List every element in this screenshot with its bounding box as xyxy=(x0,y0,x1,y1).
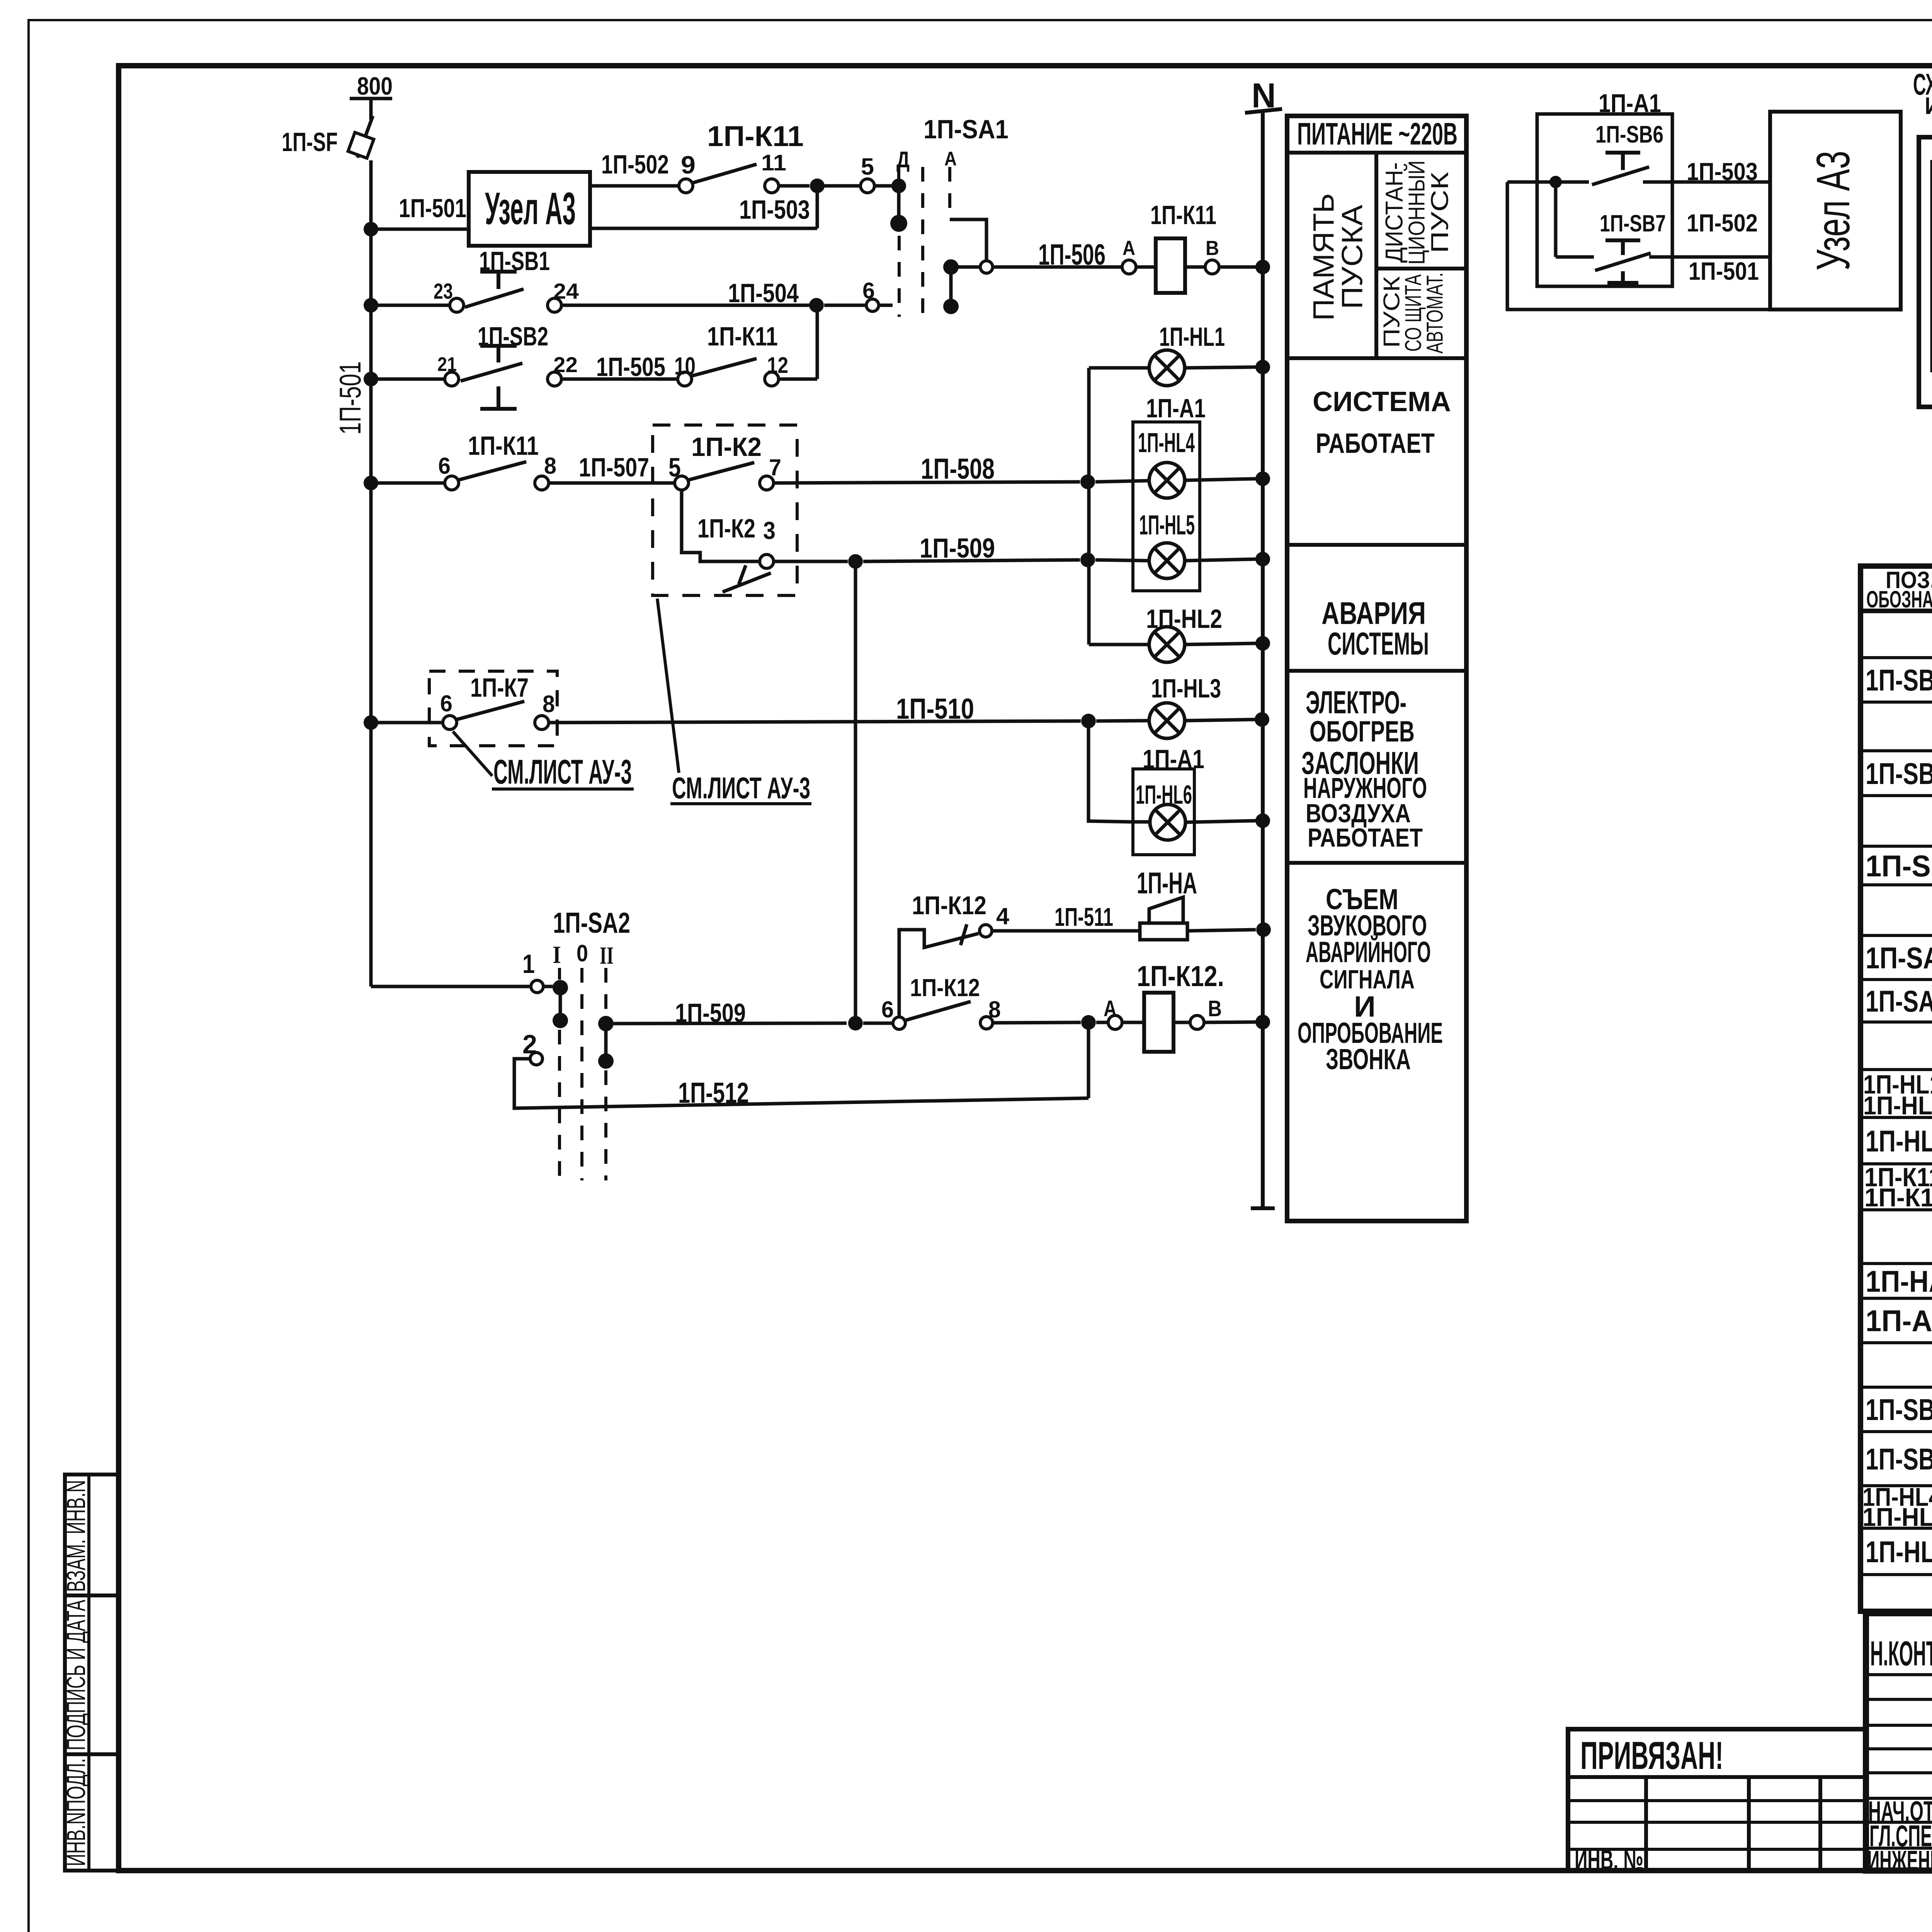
SA2 II-column contact dots xyxy=(604,968,607,1016)
svg-text:ПОДПИСЬ И ДАТА: ПОДПИСЬ И ДАТА xyxy=(61,1600,91,1750)
svg-text:А: А xyxy=(1122,237,1135,260)
svg-text:1П-SA1: 1П-SA1 xyxy=(923,114,1009,144)
svg-text:1П-503: 1П-503 xyxy=(1687,158,1758,185)
junction node xyxy=(810,179,825,193)
svg-text:ИНВ.NПОДЛ.: ИНВ.NПОДЛ. xyxy=(61,1758,91,1866)
svg-text:11: 11 xyxy=(761,150,786,175)
N bus end tick xyxy=(1251,1206,1275,1210)
svg-text:ПРИВЯЗАН!: ПРИВЯЗАН! xyxy=(1580,1734,1723,1777)
SA2 I-column contact dots xyxy=(558,968,561,983)
svg-text:9: 9 xyxy=(681,151,696,179)
svg-text:5: 5 xyxy=(668,452,681,482)
svg-text:1П-К11: 1П-К11 xyxy=(1150,200,1216,230)
pushbutton 1P-SB2 contacts 21-22 xyxy=(445,372,459,386)
svg-text:1П-509: 1П-509 xyxy=(675,998,746,1028)
svg-text:1П-К12.: 1П-К12. xyxy=(1137,960,1224,992)
svg-text:1П-501: 1П-501 xyxy=(399,194,466,223)
functional unit Uzel A3 (left) xyxy=(469,172,590,246)
svg-text:1П-А1: 1П-А1 xyxy=(1866,1304,1932,1338)
svg-text:Узел А3: Узел А3 xyxy=(1807,151,1859,270)
wire left bus 1P-501 xyxy=(369,99,373,120)
svg-text:8: 8 xyxy=(988,997,1001,1022)
svg-text:7: 7 xyxy=(769,454,781,480)
junction node rung2 right xyxy=(809,298,824,313)
svg-text:1П-К2: 1П-К2 xyxy=(691,432,762,462)
relay contact 1P-K7 dashed outline xyxy=(429,671,557,746)
svg-text:8: 8 xyxy=(543,691,555,718)
wire joining rung3 to rung2 node xyxy=(816,305,819,379)
see sheet AU-3 note (K7) xyxy=(453,731,492,776)
svg-text:1П-SF: 1П-SF xyxy=(282,127,338,157)
SA2 0-column dashed xyxy=(580,968,583,1180)
svg-text:1П-509: 1П-509 xyxy=(920,533,995,564)
wire rung4 xyxy=(371,481,444,485)
svg-text:СМ.ЛИСТ АУ-3: СМ.ЛИСТ АУ-3 xyxy=(493,752,632,791)
svg-text:1П-SB7: 1П-SB7 xyxy=(1600,210,1666,236)
wire rung3 xyxy=(371,378,444,381)
svg-text:1П-511: 1П-511 xyxy=(1054,903,1113,932)
contact 1P-K12 6-8 xyxy=(893,1017,905,1029)
circuit breaker 1P-SF xyxy=(357,116,373,158)
svg-text:1П-HL3: 1П-HL3 xyxy=(1151,673,1221,703)
svg-text:1П-505: 1П-505 xyxy=(596,352,665,382)
svg-text:1П-К12: 1П-К12 xyxy=(912,891,986,920)
svg-text:1П-К11: 1П-К11 xyxy=(468,431,539,461)
contact 6 to SA1 xyxy=(866,299,879,311)
svg-text:1П-К2: 1П-К2 xyxy=(697,514,755,543)
svg-text:24: 24 xyxy=(553,279,579,304)
svg-text:1П-НА: 1П-НА xyxy=(1137,866,1197,900)
svg-text:1П-SB2: 1П-SB2 xyxy=(1866,757,1932,791)
svg-text:1П-HL4: 1П-HL4 xyxy=(1138,428,1195,458)
svg-text:В: В xyxy=(1206,237,1219,260)
contact 1P-K11 9-11 xyxy=(679,179,693,193)
svg-text:1: 1 xyxy=(522,949,535,979)
svg-text:А: А xyxy=(1104,996,1117,1021)
svg-text:1П-512: 1П-512 xyxy=(678,1077,749,1109)
svg-text:ПАМЯТЬ: ПАМЯТЬ xyxy=(1307,193,1340,321)
svg-text:1П-HL3: 1П-HL3 xyxy=(1863,1091,1932,1120)
relay contact block 1P-K2 dashed outline xyxy=(653,425,797,595)
wire rung2 xyxy=(371,304,450,307)
pushbutton 1P-SB1 contacts 23-24 xyxy=(450,298,464,312)
svg-text:ИНВ. №: ИНВ. № xyxy=(1575,1845,1643,1876)
functional unit Uzel A3 (right) xyxy=(1770,112,1901,310)
contact 1P-K11 6-8 xyxy=(445,476,459,490)
SA1 contact dots on A column xyxy=(943,259,959,275)
svg-text:Н.КОНТР.: Н.КОНТР. xyxy=(1870,1634,1932,1673)
svg-text:800: 800 xyxy=(357,72,393,100)
svg-text:1П-504: 1П-504 xyxy=(728,278,799,308)
junction 1P-512 riser xyxy=(1081,1015,1096,1030)
riser contact6 up to K12-4 contact xyxy=(899,930,978,1017)
svg-text:1П-506: 1П-506 xyxy=(1038,238,1105,271)
svg-text:ОБОГРЕВ: ОБОГРЕВ xyxy=(1310,715,1415,748)
relay coil 1P-K11 xyxy=(1122,260,1136,274)
svg-text:А: А xyxy=(944,148,957,170)
svg-text:1П-SB7: 1П-SB7 xyxy=(1866,1442,1932,1476)
svg-text:СИСТЕМЫ: СИСТЕМЫ xyxy=(1328,626,1429,662)
svg-text:В: В xyxy=(1208,996,1222,1021)
wire 1P-509 rung5 xyxy=(774,560,848,563)
svg-text:8: 8 xyxy=(544,453,556,479)
svg-text:1П-503: 1П-503 xyxy=(739,195,810,224)
title block main outline xyxy=(1866,1613,1932,1871)
svg-text:0: 0 xyxy=(577,940,588,966)
privyazan table xyxy=(1568,1729,1866,1871)
wire 1P-501 feed xyxy=(1507,180,1589,184)
svg-text:1П-К7: 1П-К7 xyxy=(470,673,529,702)
title block left grid xyxy=(1866,1673,1932,1676)
svg-text:АВТОМАТ.: АВТОМАТ. xyxy=(1422,272,1447,354)
svg-text:ВЗАМ. ИНВ.N: ВЗАМ. ИНВ.N xyxy=(61,1480,91,1592)
svg-text:Узел А3: Узел А3 xyxy=(485,183,576,234)
wire 1P-502 rung xyxy=(590,184,678,188)
bus to SA2 contact 1 xyxy=(371,985,529,988)
svg-text:ПУСК: ПУСК xyxy=(1427,172,1454,253)
contact 5 to SA1 xyxy=(861,179,874,193)
svg-text:ПУСКА: ПУСКА xyxy=(1336,205,1369,309)
svg-text:ИНЖЕНЕР: ИНЖЕНЕР xyxy=(1867,1845,1932,1876)
svg-text:1П-502: 1П-502 xyxy=(1687,209,1758,237)
svg-text:1П-SA2: 1П-SA2 xyxy=(553,906,630,939)
svg-text:6: 6 xyxy=(862,278,875,303)
svg-text:1П-502: 1П-502 xyxy=(601,150,669,179)
svg-text:СМ.ЛИСТ АУ-3: СМ.ЛИСТ АУ-3 xyxy=(672,771,810,805)
svg-text:1П-SF: 1П-SF xyxy=(1866,849,1932,883)
svg-text:II: II xyxy=(600,942,614,969)
svg-text:1П-507: 1П-507 xyxy=(579,452,649,482)
svg-text:1П-К11: 1П-К11 xyxy=(707,321,778,351)
svg-text:1П-НА: 1П-НА xyxy=(1866,1264,1932,1298)
riser rung5 to rung9 xyxy=(854,561,857,1023)
svg-text:ОБОЗНАЧ.: ОБОЗНАЧ. xyxy=(1866,586,1932,612)
svg-text:1П-510: 1П-510 xyxy=(896,692,974,725)
junction bus rung1 xyxy=(364,222,378,236)
svg-text:1П-SB6: 1П-SB6 xyxy=(1595,121,1663,148)
svg-text:1П-508: 1П-508 xyxy=(921,452,995,485)
svg-text:1П-501: 1П-501 xyxy=(1689,257,1759,285)
svg-text:1П-HL1: 1П-HL1 xyxy=(1159,322,1225,352)
svg-text:1П-К12: 1П-К12 xyxy=(910,974,980,1002)
svg-text:1П-НL6: 1П-НL6 xyxy=(1862,1503,1932,1532)
contact 1P-K11 10-12 xyxy=(678,372,692,386)
svg-text:ЦИОННЫЙ: ЦИОННЫЙ xyxy=(1403,160,1429,265)
svg-text:И КАТУШЕК РЕЛЕ: И КАТУШЕК РЕЛЕ xyxy=(1925,93,1932,119)
lamp 1P-HL6 xyxy=(1132,820,1150,824)
wire rung6 1P-510 xyxy=(371,721,443,724)
see sheet AU-3 note (K2) xyxy=(657,599,679,773)
svg-text:5: 5 xyxy=(861,153,874,180)
svg-text:I: I xyxy=(553,941,561,968)
svg-text:РАБОТАЕТ: РАБОТАЕТ xyxy=(1316,428,1435,459)
svg-text:1П-SB1: 1П-SB1 xyxy=(1866,663,1932,697)
wire SA1-A to K11 coil xyxy=(950,219,986,263)
contact 1P-K7 6-8 xyxy=(443,716,457,730)
svg-text:1П-501: 1П-501 xyxy=(333,361,367,435)
junction bus rung4 xyxy=(364,476,378,490)
junction bus rung6 xyxy=(364,715,378,730)
svg-text:СИСТЕМА: СИСТЕМА xyxy=(1313,386,1451,417)
svg-text:21: 21 xyxy=(437,353,457,375)
svg-text:6: 6 xyxy=(881,997,894,1022)
svg-text:СИГНАЛА: СИГНАЛА xyxy=(1320,964,1415,994)
indicator legend column xyxy=(1287,116,1466,1221)
svg-text:1П-SAI: 1П-SAI xyxy=(1866,941,1932,975)
svg-text:1П-HL5: 1П-HL5 xyxy=(1866,1535,1932,1569)
svg-text:1П-HL2: 1П-HL2 xyxy=(1866,1124,1932,1158)
wire 1P-502 from SB7 xyxy=(1649,255,1770,259)
relay pinout outer box xyxy=(1919,137,1932,407)
svg-text:АВАРИЙНОГО: АВАРИЙНОГО xyxy=(1306,935,1431,969)
svg-text:23: 23 xyxy=(434,279,453,304)
svg-text:ПИТАНИЕ ~220В: ПИТАНИЕ ~220В xyxy=(1297,117,1458,151)
junction bus rung3 xyxy=(364,372,378,386)
svg-text:1П-К11: 1П-К11 xyxy=(707,120,804,152)
svg-text:6: 6 xyxy=(440,690,452,716)
svg-text:3: 3 xyxy=(763,517,776,544)
contact 1P-K2 5-7 xyxy=(675,476,689,490)
svg-text:22: 22 xyxy=(553,352,578,377)
junction bus rung2 xyxy=(364,298,378,313)
svg-text:1П-SB6: 1П-SB6 xyxy=(1866,1393,1932,1427)
svg-text:1П-К12: 1П-К12 xyxy=(1864,1183,1932,1212)
riser to HL6 xyxy=(1088,721,1132,822)
svg-text:РАБОТАЕТ: РАБОТАЕТ xyxy=(1308,823,1423,852)
svg-text:4: 4 xyxy=(996,903,1009,929)
wire 1P-503 return xyxy=(816,186,819,228)
lamp riser HL1-HL2 xyxy=(1087,368,1091,645)
relay coil 1P-K12 xyxy=(1096,1021,1108,1024)
node SB6/SB7 tie xyxy=(1549,176,1562,188)
svg-text:1П-А1: 1П-А1 xyxy=(1146,393,1206,423)
svg-text:12: 12 xyxy=(767,353,788,378)
svg-text:1П-SA2: 1П-SA2 xyxy=(1866,984,1932,1018)
svg-text:ЗВОНКА: ЗВОНКА xyxy=(1326,1043,1411,1075)
parts list table xyxy=(1861,566,1932,1611)
wire 1P-503 from SB6 xyxy=(1643,180,1770,184)
svg-text:6: 6 xyxy=(438,453,451,479)
left margin stamp column xyxy=(65,1475,119,1871)
svg-text:1П-HL5: 1П-HL5 xyxy=(1139,510,1195,541)
wire 1P-501 to A3 xyxy=(371,228,469,231)
wire 1P-509 from SA2 II xyxy=(614,1023,847,1024)
